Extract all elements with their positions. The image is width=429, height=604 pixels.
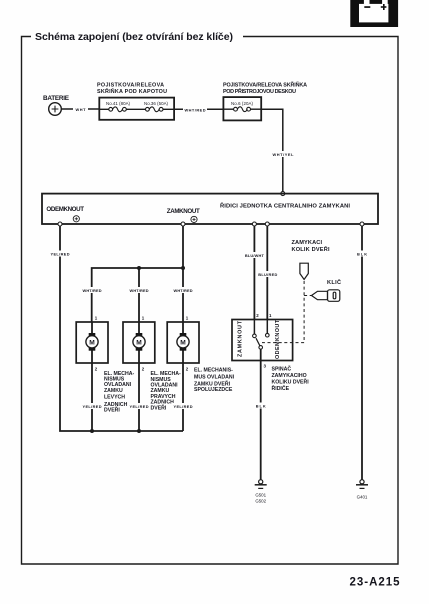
svg-text:ZAMYKACIHO: ZAMYKACIHO — [272, 373, 307, 379]
fuse box under hood — [99, 98, 174, 120]
bus to motors 1 and 2 — [92, 268, 183, 322]
svg-text:No.36 (50A): No.36 (50A) — [144, 101, 169, 106]
label WHT/YEL — [271, 151, 295, 157]
motor M3 — [177, 322, 189, 363]
svg-text:DVEŘI: DVEŘI — [151, 404, 167, 412]
wire WHT/RED between fuse boxes — [174, 108, 223, 110]
wire motor3 to bus — [182, 363, 184, 431]
unlock direction symbol — [73, 216, 79, 222]
svg-text:ZAMKU DVEŘI: ZAMKU DVEŘI — [194, 379, 231, 387]
switch contact 2 — [253, 320, 255, 335]
svg-text:SPOLUJEZDCE: SPOLUJEZDCE — [194, 387, 233, 393]
wire from common contact down — [260, 349, 262, 480]
mechanical linkage dashed — [262, 281, 312, 343]
svg-text:WHT/RED: WHT/RED — [185, 107, 206, 112]
svg-text:YEL/RED: YEL/RED — [83, 404, 102, 409]
label motor2 EL. MECHANISMUS — [151, 371, 182, 412]
battery B1 symbol — [49, 103, 62, 116]
door lock switch box — [232, 320, 293, 361]
wire through fuse box 1 — [99, 108, 109, 110]
svg-text:23-A215: 23-A215 — [350, 577, 401, 589]
svg-text:KOLIKU DVEŘI: KOLIKU DVEŘI — [272, 377, 310, 385]
svg-text:EL. MECHANIS-: EL. MECHANIS- — [194, 368, 233, 374]
svg-text:WHT: WHT — [76, 107, 87, 112]
switch common contact — [259, 346, 263, 350]
wire BLK from control unit — [361, 226, 363, 480]
junction dot bus1 at motor3 — [181, 266, 185, 270]
svg-text:WHT/RED: WHT/RED — [83, 288, 102, 293]
frame bracket — [22, 37, 399, 565]
label BLU/WHT — [244, 252, 265, 258]
svg-text:POJISTKOVA/RELEOVA: POJISTKOVA/RELEOVA — [97, 83, 164, 89]
label motor3 EL. MECHANISMUS — [194, 368, 235, 394]
connector at control unit top — [281, 192, 285, 196]
svg-text:DVEŘI: DVEŘI — [104, 406, 120, 414]
svg-text:BLU/RED: BLU/RED — [258, 272, 277, 277]
svg-text:ODEMKNOUT: ODEMKNOUT — [46, 206, 84, 213]
label YEL/RED — [50, 251, 71, 257]
wire WHT battery to fusebox — [61, 108, 99, 110]
control unit ŘIDICI JEDNOTKA CENTRALNIHO ZAMYKANI — [42, 194, 378, 224]
junction dot bus2 at motor1 — [90, 429, 94, 433]
junction dot bus1 at motor2 — [137, 266, 141, 270]
svg-text:SPINAČ: SPINAČ — [272, 365, 292, 372]
svg-text:WHT/YEL: WHT/YEL — [273, 152, 295, 157]
svg-text:BLU/WHT: BLU/WHT — [245, 253, 265, 258]
motor M1 box — [76, 322, 108, 363]
lock direction symbol — [191, 216, 197, 222]
svg-text:ZAMYKACI: ZAMYKACI — [292, 240, 323, 246]
svg-text:ODEMKNOUT: ODEMKNOUT — [275, 319, 281, 359]
label BLK right wire — [357, 251, 368, 257]
label BLK switch wire — [255, 403, 266, 409]
motor M3 box — [167, 322, 199, 363]
svg-text:No.6 (20A): No.6 (20A) — [231, 101, 254, 106]
label WHT/RED — [183, 106, 207, 112]
svg-text:ZAMKNOUT: ZAMKNOUT — [238, 320, 244, 357]
label WHT/RED branch2 — [129, 287, 150, 293]
wire BLU/WHT to switch — [253, 226, 255, 320]
svg-text:Schéma zapojení (bez otvírání: Schéma zapojení (bez otvírání bez klíče) — [35, 31, 233, 43]
motor M2 — [133, 322, 145, 363]
svg-text:M: M — [180, 339, 186, 346]
battery icon (page corner symbol) — [350, 0, 398, 27]
svg-text:ZAMKU: ZAMKU — [104, 388, 123, 394]
label YEL/RED bottom2 — [129, 403, 150, 409]
svg-text:YEL/RED: YEL/RED — [130, 404, 149, 409]
label BLU/RED — [257, 271, 278, 277]
svg-text:WHT/RED: WHT/RED — [130, 288, 149, 293]
svg-text:ŘIDIČE: ŘIDIČE — [272, 384, 290, 392]
svg-text:M: M — [136, 339, 142, 346]
ground G401 — [356, 480, 368, 489]
switch contact 1 — [266, 320, 268, 334]
svg-text:No.41 (80A): No.41 (80A) — [106, 101, 131, 106]
key symbol — [312, 290, 340, 302]
svg-text:POD PŘISTROJOVOU DESKOU: POD PŘISTROJOVOU DESKOU — [223, 87, 296, 95]
wire YEL/RED from ODEMKNOUT down and bottom bus — [60, 226, 183, 431]
label WHT — [73, 106, 88, 112]
svg-text:BLK: BLK — [256, 404, 266, 409]
label SPINAČ ZAMYKACIHO — [272, 365, 310, 392]
svg-text:YEL/RED: YEL/RED — [174, 404, 193, 409]
svg-text:G401: G401 — [357, 494, 368, 499]
svg-text:POJISTKOVA/RELEOVA SKŘIŇKA: POJISTKOVA/RELEOVA SKŘIŇKA — [223, 81, 307, 89]
svg-text:M: M — [89, 339, 95, 346]
wire branch motor2 — [138, 268, 140, 322]
svg-text:MUS OVLADANI: MUS OVLADANI — [194, 375, 235, 381]
label YEL/RED bottom3 — [173, 403, 194, 409]
svg-text:ZAMKNOUT: ZAMKNOUT — [167, 208, 200, 215]
wire motor1 to bus — [91, 363, 93, 431]
connector circles on control unit bottom — [58, 222, 364, 226]
svg-text:KLIČ: KLIČ — [327, 279, 341, 286]
motor M2 box — [123, 322, 155, 363]
svg-text:BATERIE: BATERIE — [43, 95, 70, 102]
svg-text:G502: G502 — [255, 498, 266, 503]
svg-text:SKŘIŇKA POD KAPOTOU: SKŘIŇKA POD KAPOTOU — [97, 87, 167, 95]
motor M1 — [86, 322, 98, 363]
wire WHT/YEL fuse box to control unit — [261, 109, 283, 191]
label motor1 EL. MECHANISMUS — [104, 371, 135, 414]
door lock knob symbol — [300, 263, 308, 279]
svg-text:LEVYCH: LEVYCH — [104, 394, 125, 400]
wire BLU/RED to switch — [266, 226, 268, 320]
ground G501/G502 — [255, 480, 267, 489]
svg-text:G501: G501 — [255, 493, 266, 498]
junction dot bus2 at motor2 — [137, 429, 141, 433]
wire motor2 to bus — [138, 363, 140, 431]
wire ZAMKNOUT down to motor 3 — [182, 226, 184, 322]
svg-text:KOLIK DVEŘI: KOLIK DVEŘI — [292, 245, 330, 253]
svg-text:BLK: BLK — [357, 252, 367, 257]
svg-text:ŘIDICI JEDNOTKA CENTRALNIHO ZA: ŘIDICI JEDNOTKA CENTRALNIHO ZAMYKANI — [220, 202, 350, 210]
label YEL/RED bottom1 — [82, 403, 103, 409]
label WHT/RED branch1 — [82, 287, 103, 293]
svg-text:YEL/RED: YEL/RED — [51, 252, 70, 257]
label WHT/RED branch3 — [173, 287, 194, 293]
svg-text:WHT/RED: WHT/RED — [174, 288, 193, 293]
switch lever — [256, 338, 260, 346]
fuse box under dash — [223, 97, 261, 120]
